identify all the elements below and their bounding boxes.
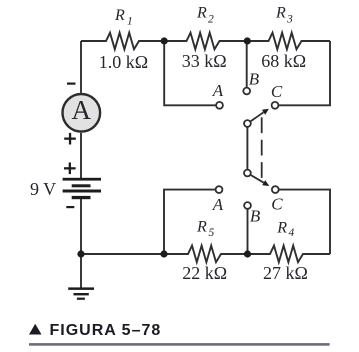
svg-text:33 kΩ: 33 kΩ [182, 51, 227, 71]
svg-text:FIGURA 5–78: FIGURA 5–78 [50, 322, 162, 339]
svg-text:B: B [249, 69, 260, 88]
svg-text:R: R [275, 5, 286, 22]
svg-text:4: 4 [289, 227, 295, 239]
svg-text:R: R [114, 7, 125, 24]
svg-text:9 V: 9 V [30, 179, 56, 199]
svg-text:R: R [196, 218, 207, 235]
svg-text:27 kΩ: 27 kΩ [263, 263, 308, 283]
svg-text:2: 2 [208, 13, 214, 25]
svg-text:R: R [276, 219, 287, 236]
svg-text:A: A [212, 81, 224, 100]
svg-text:A: A [72, 95, 92, 125]
svg-text:3: 3 [286, 13, 293, 25]
svg-text:A: A [212, 195, 224, 214]
svg-text:C: C [271, 195, 283, 214]
svg-text:22 kΩ: 22 kΩ [182, 263, 227, 283]
svg-text:5: 5 [209, 227, 215, 239]
svg-text:1.0 kΩ: 1.0 kΩ [99, 52, 148, 72]
svg-text:R: R [196, 5, 207, 22]
svg-text:68 kΩ: 68 kΩ [261, 51, 306, 71]
svg-text:1: 1 [127, 16, 133, 28]
svg-text:C: C [271, 82, 283, 101]
svg-text:B: B [250, 207, 261, 226]
